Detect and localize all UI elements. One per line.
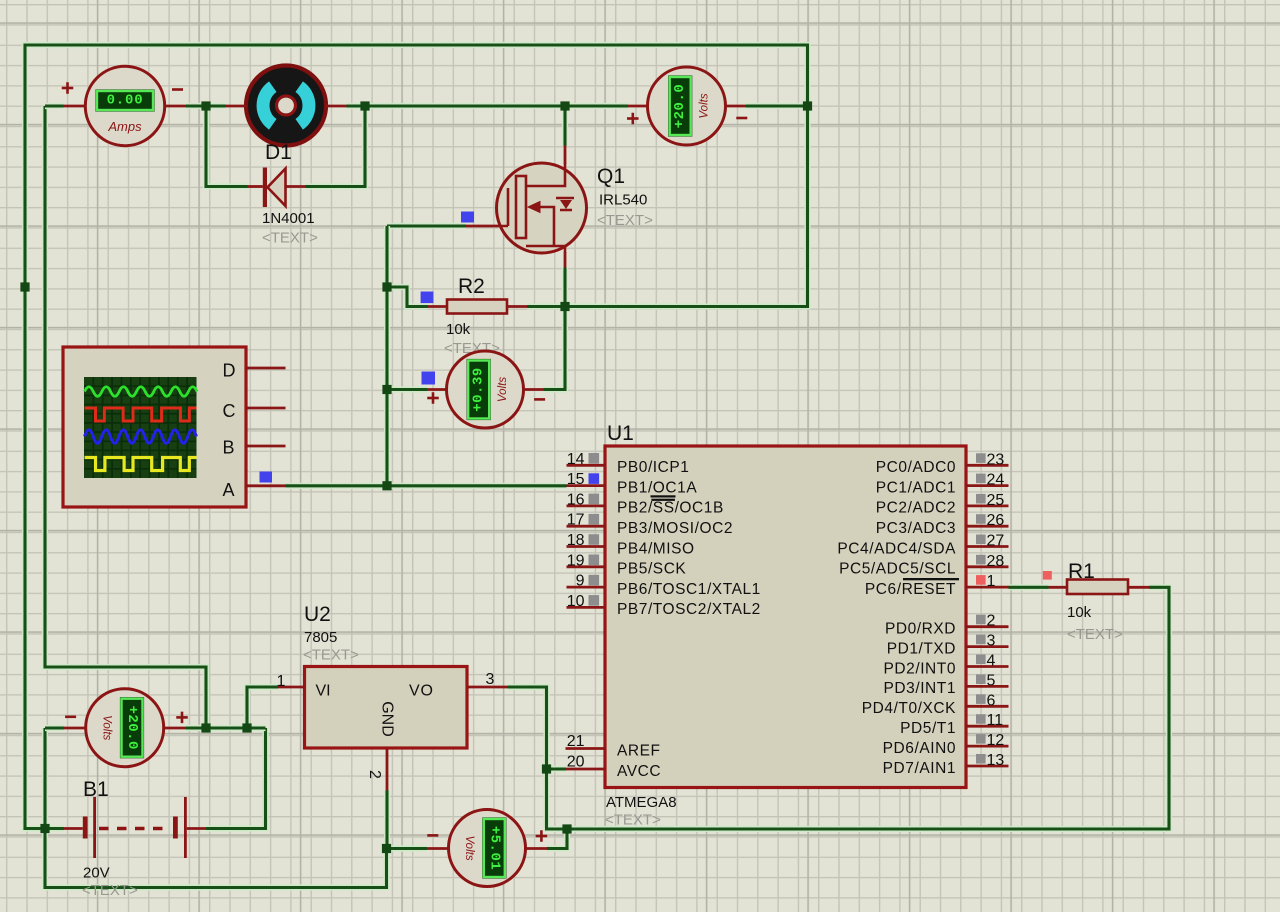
Q1 gate pin — [466, 225, 498, 228]
svg-text:PD0/RXD: PD0/RXD — [885, 621, 956, 638]
svg-text:PB0/ICP1: PB0/ICP1 — [617, 459, 689, 476]
svg-text:2: 2 — [366, 770, 383, 779]
U1 pin 24 indicator square — [976, 474, 986, 484]
Q1 text placeholder — [597, 212, 653, 229]
svg-text:<TEXT>: <TEXT> — [597, 212, 653, 229]
U1 pin 16 indicator square — [589, 494, 600, 505]
svg-text:AVCC: AVCC — [617, 763, 661, 780]
wire voltmeter 20 minus segment — [45, 725, 64, 731]
U1 text placeholder — [605, 812, 661, 829]
diode D1 — [263, 168, 286, 208]
svg-text:<TEXT>: <TEXT> — [262, 230, 318, 247]
mcu U1 body — [605, 446, 966, 788]
U1 pin 21 stub — [566, 747, 606, 750]
U2 pin 2 number — [366, 770, 383, 779]
svg-text:PD3/INT1: PD3/INT1 — [884, 680, 956, 697]
U1 pin 17 number — [567, 512, 585, 529]
svg-text:19: 19 — [567, 552, 585, 569]
U2 VI pin — [278, 686, 305, 689]
U1 pin 3 number — [987, 633, 996, 650]
resistor R1 — [1067, 580, 1128, 595]
U1 pin 21 name AREF — [617, 742, 661, 759]
wire R1 to bottom +5V rail — [567, 587, 1169, 829]
U1 pin 19 indicator square — [589, 555, 600, 566]
selection square on gate wire — [461, 212, 474, 223]
U1 pin 28 name PC5/ADC5/SCL — [839, 561, 956, 578]
diode D1 text placeholder — [262, 230, 318, 247]
svg-text:B1: B1 — [83, 778, 109, 801]
svg-text:Volts: Volts — [463, 835, 475, 860]
oscilloscope trace channel A (yellow square) — [85, 458, 197, 471]
B1 value label — [83, 865, 110, 882]
U1 pin 23 indicator square — [976, 453, 986, 463]
motor right pin — [326, 105, 347, 108]
voltmeter VM2 left pin — [427, 388, 447, 391]
svg-text:PB7/TOSC2/XTAL2: PB7/TOSC2/XTAL2 — [617, 601, 761, 618]
U1 pin 28 stub — [966, 565, 1009, 568]
U2 GND pin — [386, 748, 389, 791]
U1 pin 15 indicator square — [589, 473, 600, 484]
U1 pin 6 stub — [966, 705, 1009, 708]
U1 pin 3 name PD1/TXD — [887, 640, 956, 657]
U1 PB1 OC1 underline — [651, 495, 676, 497]
svg-text:<TEXT>: <TEXT> — [303, 647, 359, 664]
wire voltmeter 5.01 minus to gnd — [387, 845, 428, 851]
U1 pin 13 number — [987, 752, 1005, 769]
wire 7805 GND to gnd rail — [384, 791, 390, 849]
Q1 drain pin — [564, 146, 567, 165]
wire battery minus segment — [45, 825, 64, 831]
U1 pin 6 number — [987, 692, 996, 709]
U1 pin 25 stub — [966, 504, 1009, 507]
svg-text:D: D — [223, 361, 236, 381]
U1 pin 4 name PD2/INT0 — [884, 660, 956, 677]
svg-text:28: 28 — [987, 553, 1005, 570]
svg-text:ATMEGA8: ATMEGA8 — [606, 794, 677, 811]
svg-text:Volts: Volts — [699, 93, 711, 118]
voltmeter VM1 right pin — [726, 105, 747, 108]
U2 pin 3 number — [486, 671, 495, 688]
oscilloscope channel D pin — [246, 367, 286, 370]
svg-text:GND: GND — [378, 701, 395, 737]
ammeter right pin — [165, 105, 187, 108]
wire MOSFET source to R2 node — [562, 268, 568, 307]
svg-text:17: 17 — [567, 512, 585, 529]
U1 pin 19 name PB5/SCK — [617, 561, 686, 578]
svg-text:PD7/AIN1: PD7/AIN1 — [883, 760, 956, 777]
junction gate/voltmeter 0.39 node — [382, 385, 391, 394]
diode D1 ref label — [265, 141, 292, 164]
U1 pin 27 indicator square — [976, 535, 986, 545]
U1 pin 9 indicator square — [589, 575, 600, 586]
B1 ref label — [83, 778, 109, 801]
svg-text:R2: R2 — [458, 275, 485, 298]
svg-text:PD6/AIN0: PD6/AIN0 — [883, 740, 956, 757]
U1 pin 27 stub — [966, 545, 1009, 548]
U1 pin 2 name PD0/RXD — [885, 621, 956, 638]
wire GND vertical left — [45, 728, 387, 888]
svg-text:PB3/MOSI/OC2: PB3/MOSI/OC2 — [617, 520, 733, 537]
U1 pin 20 number — [567, 754, 585, 771]
U1 RESET overbar — [903, 578, 959, 580]
U1 pin 15 number — [567, 471, 585, 488]
svg-text:20: 20 — [567, 754, 585, 771]
svg-text:5: 5 — [987, 672, 996, 689]
R2 ref label — [458, 275, 485, 298]
junction left outer wire — [20, 282, 29, 291]
R2 value label — [446, 321, 471, 338]
junction +20 rail node A — [201, 723, 210, 732]
U1 pin 16 stub — [567, 504, 606, 507]
oscilloscope channel B pin — [246, 445, 286, 448]
wire y=106 segment ammeter left — [45, 103, 64, 109]
U1 pin 18 name PB4/MISO — [617, 540, 695, 557]
oscilloscope channel C pin — [246, 407, 286, 410]
wire gate horizontal — [387, 223, 466, 229]
svg-text:1: 1 — [987, 573, 996, 590]
U1 pin 2 number — [987, 613, 996, 630]
diode D1 value label — [262, 210, 315, 227]
U1 pin 5 stub — [966, 685, 1009, 688]
battery B1 — [83, 797, 187, 858]
U1 pin 1 name PC6/RESET — [865, 581, 956, 598]
U1 pin 5 name PD3/INT1 — [884, 680, 956, 697]
junction +20 rail node B — [242, 723, 251, 732]
wire +20V rail vertical from ammeter+ — [45, 106, 206, 728]
wire y=106 segment motor to voltmeter — [347, 103, 629, 109]
regulator U2 7805 body — [305, 667, 468, 749]
svg-text:PC2/ADC2: PC2/ADC2 — [876, 500, 956, 517]
wire oscilloscope A to PB1 pin 15 — [286, 483, 567, 489]
U1 pin 5 number — [987, 672, 996, 689]
U1 pin 20 stub — [566, 768, 606, 771]
svg-text:<TEXT>: <TEXT> — [82, 882, 138, 899]
svg-text:10: 10 — [567, 593, 585, 610]
U1 pin 12 stub — [966, 745, 1009, 748]
U1 pin 26 indicator square — [976, 514, 986, 524]
U1 pin 17 indicator square — [589, 514, 600, 525]
U1 value label — [606, 794, 677, 811]
wire R2 right to node — [527, 303, 565, 309]
wire diode parallel loop — [206, 106, 365, 187]
svg-text:R1: R1 — [1068, 560, 1095, 583]
svg-text:AREF: AREF — [617, 742, 661, 759]
U1 pin 26 name PC3/ADC3 — [876, 520, 956, 537]
wire voltmeter 20 plus segment — [186, 725, 266, 731]
ammeter — [62, 66, 183, 145]
svg-text:VO: VO — [409, 683, 433, 700]
svg-text:A: A — [223, 480, 235, 500]
voltmeter VM4 right pin — [526, 847, 548, 850]
U2 pin 1 number — [277, 673, 286, 690]
svg-text:Volts: Volts — [497, 377, 509, 402]
battery minus lead — [64, 827, 83, 830]
junction ammeter-motor-diode node — [201, 101, 210, 110]
svg-text:PB2/SS/OC1B: PB2/SS/OC1B — [617, 500, 724, 517]
U1 pin 1 number — [987, 573, 996, 590]
R2 left lead — [428, 305, 447, 308]
svg-text:PC6/RESET: PC6/RESET — [865, 581, 956, 598]
U1 pin 20 name AVCC — [617, 763, 661, 780]
svg-text:+20.0: +20.0 — [672, 84, 688, 129]
U1 pin 28 indicator square — [976, 555, 986, 565]
junction R2-source node — [560, 302, 569, 311]
wire outer loop top and right (motor-/drain net) — [25, 45, 808, 829]
U1 pin 12 indicator square — [976, 734, 986, 744]
U1 pin 1 stub — [966, 586, 1009, 589]
svg-text:PB6/TOSC1/XTAL1: PB6/TOSC1/XTAL1 — [617, 581, 761, 598]
svg-text:PD2/INT0: PD2/INT0 — [884, 660, 956, 677]
motor M1 — [246, 66, 326, 146]
svg-text:+5.01: +5.01 — [486, 826, 502, 871]
U1 pin 2 indicator square — [976, 615, 986, 625]
svg-text:0.00: 0.00 — [107, 93, 144, 109]
battery plus lead — [187, 827, 206, 830]
oscilloscope channel A pin — [246, 484, 286, 487]
svg-text:21: 21 — [567, 733, 585, 750]
U1 pin 24 name PC1/ADC1 — [876, 479, 956, 496]
svg-text:1: 1 — [277, 673, 286, 690]
U1 pin 12 name PD6/AIN0 — [883, 740, 956, 757]
U1 pin 5 indicator square — [976, 674, 986, 684]
svg-text:PC3/ADC3: PC3/ADC3 — [876, 520, 956, 537]
U1 pin 18 indicator square — [589, 534, 600, 545]
wire +5V rail to AVCC — [547, 766, 567, 772]
svg-text:Q1: Q1 — [597, 165, 625, 188]
voltmeter VM2 +0.39 Volts — [427, 351, 545, 428]
U1 pin 24 number — [987, 472, 1005, 489]
U1 pin 13 name PD7/AIN1 — [883, 760, 956, 777]
U1 pin 14 stub — [567, 464, 606, 467]
U1 pin 11 number — [987, 712, 1004, 729]
U1 pin 3 indicator square — [976, 635, 986, 645]
U1 pin 10 indicator square — [589, 595, 600, 606]
U1 pin 25 name PC2/ADC2 — [876, 500, 956, 517]
U1 pin 11 stub — [966, 725, 1009, 728]
U2 ref label — [304, 603, 331, 626]
U1 pin 23 name PC0/ADC0 — [876, 459, 956, 476]
voltmeter VM2 right pin — [524, 388, 544, 391]
U1 pin 18 number — [567, 532, 585, 549]
R2 text placeholder — [444, 340, 500, 357]
svg-text:U1: U1 — [607, 422, 634, 445]
U1 pin 15 name PB1/OC1A — [617, 479, 697, 496]
oscilloscope channel D label — [223, 361, 236, 381]
svg-text:Volts: Volts — [101, 715, 113, 740]
svg-text:26: 26 — [987, 512, 1005, 529]
wire selection square near R1 — [1043, 571, 1052, 580]
junction diode anode node — [360, 101, 369, 110]
voltmeter VM3 left pin — [64, 727, 86, 730]
R1 left lead — [1049, 586, 1068, 589]
svg-text:2: 2 — [987, 613, 996, 630]
junction gate/R2 node — [382, 282, 391, 291]
U1 pin 11 indicator square — [976, 714, 986, 724]
U1 pin 16 number — [567, 491, 585, 508]
U1 pin 6 name PD4/T0/XCK — [862, 700, 956, 717]
diode cathode lead — [248, 185, 263, 188]
svg-text:PC4/ADC4/SDA: PC4/ADC4/SDA — [837, 540, 956, 557]
svg-text:18: 18 — [567, 532, 585, 549]
svg-text:PD5/T1: PD5/T1 — [900, 720, 956, 737]
R1 text placeholder — [1067, 626, 1123, 643]
junction gnd rail node — [382, 844, 391, 853]
oscilloscope body and screen — [63, 347, 246, 507]
U1 pin 9 name PB6/TOSC1/XTAL1 — [617, 581, 761, 598]
svg-text:6: 6 — [987, 692, 996, 709]
U1 PB2 SS overbar — [651, 499, 675, 501]
U1 pin 4 stub — [966, 665, 1009, 668]
wire 7805 VO down to +5V rail — [508, 687, 567, 829]
R1 right lead — [1128, 586, 1149, 589]
junction AVCC node — [542, 764, 551, 773]
U1 pin 18 stub — [567, 545, 606, 548]
svg-text:IRL540: IRL540 — [599, 192, 647, 209]
svg-text:+20.0: +20.0 — [124, 705, 140, 750]
U1 pin 27 number — [987, 533, 1005, 550]
svg-text:U2: U2 — [304, 603, 331, 626]
U1 pin 9 stub — [567, 586, 606, 589]
motor left pin — [226, 105, 247, 108]
U1 pin 16 name PB2/SS/OC1B — [617, 500, 724, 517]
svg-text:14: 14 — [567, 451, 585, 468]
svg-text:PC1/ADC1: PC1/ADC1 — [876, 479, 956, 496]
oscilloscope channel C label — [223, 401, 236, 421]
U1 pin 10 name PB7/TOSC2/XTAL2 — [617, 601, 761, 618]
U1 pin 17 stub — [567, 525, 606, 528]
svg-text:4: 4 — [987, 653, 996, 670]
R1 value label — [1067, 604, 1092, 621]
resistor R2 — [447, 300, 507, 314]
voltmeter VM1 left pin — [628, 105, 648, 108]
U1 pin 28 number — [987, 553, 1005, 570]
U1 pin 26 stub — [966, 525, 1009, 528]
svg-text:<TEXT>: <TEXT> — [1067, 626, 1123, 643]
svg-text:10k: 10k — [1067, 604, 1092, 621]
svg-text:Amps: Amps — [107, 119, 142, 134]
svg-text:<TEXT>: <TEXT> — [605, 812, 661, 829]
svg-text:3: 3 — [486, 671, 495, 688]
voltmeter VM4 left pin — [427, 847, 449, 850]
wire gate/feedback vertical — [384, 226, 390, 486]
voltmeter VM4 +5.01 Volts — [427, 810, 547, 887]
svg-text:PC5/ADC5/SCL: PC5/ADC5/SCL — [839, 561, 956, 578]
svg-text:16: 16 — [567, 491, 585, 508]
svg-text:12: 12 — [987, 732, 1005, 749]
U1 pin 23 stub — [966, 464, 1009, 467]
U1 pin 15 stub — [567, 484, 606, 487]
svg-text:+0.39: +0.39 — [471, 367, 487, 412]
svg-text:PB4/MISO: PB4/MISO — [617, 540, 695, 557]
junction battery minus node — [40, 824, 49, 833]
U1 pin 14 indicator square — [589, 453, 600, 464]
svg-text:27: 27 — [987, 533, 1005, 550]
U1 pin 10 stub — [567, 606, 606, 609]
U1 pin 19 number — [567, 552, 585, 569]
svg-text:VI: VI — [316, 683, 331, 700]
wire 7805 VI riser — [247, 687, 278, 728]
U1 pin 9 number — [576, 573, 585, 590]
svg-text:D1: D1 — [265, 141, 292, 164]
U1 pin 27 name PC4/ADC4/SDA — [837, 540, 956, 557]
U1 pin 23 number — [987, 451, 1005, 468]
R1 ref label — [1068, 560, 1095, 583]
oscilloscope trace channel B (blue sine) — [85, 430, 197, 443]
U1 pin 24 stub — [966, 484, 1009, 487]
U2 text placeholder — [303, 647, 359, 664]
U1 pin 6 indicator square — [976, 694, 986, 704]
selection square on R2 wire — [421, 292, 434, 304]
voltmeter VM3 right pin — [164, 727, 186, 730]
U1 pin 26 number — [987, 512, 1005, 529]
oscilloscope trace channel C (red square) — [85, 408, 197, 421]
U1 pin 17 name PB3/MOSI/OC2 — [617, 520, 733, 537]
svg-text:20V: 20V — [83, 865, 110, 882]
junction gate/scope A node — [382, 481, 391, 490]
junction voltmeter top right node — [803, 101, 812, 110]
ammeter left pin — [64, 105, 86, 108]
U1 pin 10 number — [567, 593, 585, 610]
U1 pin 21 number — [567, 733, 585, 750]
wire y=106 segment ammeter to motor — [186, 103, 226, 109]
svg-text:25: 25 — [987, 492, 1005, 509]
svg-text:C: C — [223, 401, 236, 421]
U1 pin 19 stub — [567, 565, 606, 568]
U1 pin 4 indicator square — [976, 655, 986, 665]
diode anode lead — [286, 185, 306, 188]
B1 text placeholder — [82, 882, 138, 899]
svg-text:23: 23 — [987, 451, 1005, 468]
oscilloscope trace channel D (green sine) — [85, 387, 197, 397]
svg-text:PD4/T0/XCK: PD4/T0/XCK — [862, 700, 956, 717]
wire node to voltmeter 0.39 minus — [544, 307, 566, 390]
wire battery plus riser — [206, 728, 266, 829]
U1 pin 13 indicator square — [976, 754, 986, 764]
wire R2 jog from gate net — [387, 287, 428, 307]
svg-text:11: 11 — [987, 712, 1004, 729]
U1 pin 11 name PD5/T1 — [900, 720, 956, 737]
svg-text:PD1/TXD: PD1/TXD — [887, 640, 956, 657]
voltmeter VM3 +20.0 Volts — [65, 689, 188, 767]
wire +5V to voltmeter 5.01 plus — [547, 829, 567, 849]
svg-text:PC0/ADC0: PC0/ADC0 — [876, 459, 956, 476]
R2 right lead — [507, 305, 527, 308]
svg-text:24: 24 — [987, 472, 1005, 489]
U1 pin 1 indicator square — [976, 575, 986, 585]
U1 pin 4 number — [987, 653, 996, 670]
voltmeter VM1 +20.0 Volts — [627, 67, 747, 145]
U2 value label — [304, 629, 337, 646]
svg-text:15: 15 — [567, 471, 585, 488]
U1 pin 2 stub — [966, 625, 1009, 628]
selection square on voltmeter 0.39 wire — [422, 372, 436, 385]
wire y=106 segment voltmeter to corner — [746, 103, 808, 109]
svg-text:3: 3 — [987, 633, 996, 650]
oscilloscope channel B label — [223, 438, 235, 458]
svg-text:PB5/SCK: PB5/SCK — [617, 561, 686, 578]
U1 pin 14 number — [567, 451, 585, 468]
svg-text:10k: 10k — [446, 321, 471, 338]
transistor Q1 IRL540 — [497, 163, 587, 253]
U1 pin 14 name PB0/ICP1 — [617, 459, 689, 476]
U1 pin 12 number — [987, 732, 1005, 749]
Q1 ref label — [597, 165, 625, 188]
U1 pin 25 number — [987, 492, 1005, 509]
svg-text:7805: 7805 — [304, 629, 337, 646]
oscilloscope channel A label — [223, 480, 235, 500]
U1 pin 25 indicator square — [976, 494, 986, 504]
U2 VO pin — [467, 686, 508, 689]
